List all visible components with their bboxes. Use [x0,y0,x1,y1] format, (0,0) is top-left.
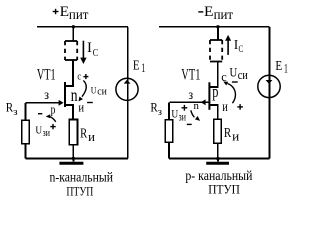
transistor VT1 drain lead right [209,62,217,88]
svg-text:пит: пит [69,7,89,22]
wire E1 branch right [269,27,271,159]
label Ic left [87,40,98,59]
transistor VT1 source lead right [209,105,217,119]
transistor VT1 gate arrow (points away, p-type) [201,99,206,105]
svg-text:1: 1 [284,60,288,75]
wire R3 to bottom rail [25,144,27,159]
current Ic arrow (up) right [225,35,231,55]
svg-text:R: R [80,126,87,141]
load (dashed box) right [210,40,222,62]
minus sign at gate left [38,113,42,115]
svg-text:и: и [88,130,95,144]
label Ic right [234,37,243,54]
svg-text:E: E [133,59,140,74]
resistor Ri body right [214,119,222,143]
svg-text:пит: пит [214,7,234,22]
resistor Ri label right [224,126,239,143]
ground symbol right [206,159,229,164]
resistor R3 (gate) label left [6,101,18,119]
svg-text:n: n [71,85,78,105]
resistor Ri label left [80,126,95,144]
resistor R3 body right [165,120,173,143]
label E1 right [275,59,288,75]
plus sign at source right [237,104,243,110]
svg-text:си: си [97,85,107,97]
svg-text:зи: зи [179,110,187,124]
Usi curved arrow right [223,82,235,104]
minus sign at source left [87,102,93,104]
load (dashed box) left [65,41,77,60]
current Ic arrow (down) left [80,41,86,64]
transistor VT1 source lead [65,105,73,120]
svg-text:U: U [91,86,97,96]
transistor VT1 (p-JFET): channel [208,82,210,110]
label E1 left [133,59,145,75]
label Usi right [230,64,248,82]
wire top rail left circuit [37,26,128,28]
transistor VT1 (n-JFET): channel [64,82,66,107]
transistor VT1 gate arrow (points to channel, n-type) [59,100,64,106]
source E1 circle right [258,75,280,97]
svg-text:з: з [13,107,17,118]
plus sign at Uzi left [50,124,55,129]
wire Ri to bottom rail right [217,143,219,158]
node junction dot bottom left [72,157,75,160]
svg-text:I: I [87,40,92,56]
wire Ri to bottom rail [72,145,74,159]
net -Epit label [198,3,233,22]
svg-text:и: и [222,99,228,114]
svg-text:U: U [35,125,42,137]
source E1 arrow (down) right [266,80,273,84]
label Uzi left [35,125,50,140]
net +Epit label [53,3,89,22]
wire stub from top rail to load [72,27,74,41]
svg-text:E: E [60,3,70,20]
resistor R3 body left [22,120,30,144]
svg-text:и: и [78,101,84,115]
svg-text:з: з [158,107,162,118]
svg-text:n-канальный: n-канальный [50,170,114,185]
transistor VT1 drain lead [65,60,73,86]
svg-text:ПТУП: ПТУП [66,183,93,198]
wire bottom rail right circuit [169,158,270,160]
svg-text:VT1: VT1 [37,67,56,84]
Uzi curved arrow right [191,110,200,121]
wire gate to R3 [25,103,27,120]
svg-text:R: R [224,126,232,141]
svg-text:C: C [93,48,99,59]
resistor Ri body left [69,119,77,144]
source E1 arrow (up) left [124,80,131,84]
wire E1 branch left [127,27,129,159]
svg-text:з: з [188,87,193,102]
Uzi curved arrow left [46,114,56,122]
Usi curved arrow left [79,81,87,102]
wire gate to R3 right [168,102,170,119]
svg-text:си: си [238,67,248,82]
transistor VT1 gate lead right [170,101,210,103]
wire top rail right circuit [159,26,270,28]
minus sign below Uzi right [187,123,192,125]
svg-text:VT1: VT1 [181,67,200,84]
transistor VT1 gate lead [26,102,61,104]
svg-text:p- канальный: p- канальный [185,168,252,183]
svg-text:E: E [275,59,282,74]
svg-text:p: p [51,101,56,116]
label Usi left [91,85,107,97]
minus sign under Usi right [232,81,238,83]
ground symbol left [59,158,83,163]
svg-text:ПТУП: ПТУП [208,182,240,197]
svg-text:и: и [232,130,239,144]
resistor R3 (gate) label right [150,101,162,119]
svg-text:E: E [204,3,214,20]
wire R3 to bottom rail right [168,142,170,158]
svg-text:U: U [230,64,238,79]
svg-text:p: p [212,82,218,101]
plus sign at gate right [182,105,188,111]
svg-text:n: n [194,100,200,112]
svg-text:1: 1 [141,60,145,75]
plus sign at drain left [83,74,88,79]
node junction dot top right [216,25,219,28]
svg-text:с: с [77,71,81,83]
wire stub from top rail to load right [217,27,219,40]
node junction dot top left [72,25,75,28]
node junction dot bottom right [216,157,219,160]
label Uzi right [171,107,186,123]
svg-text:зи: зи [43,127,50,139]
svg-text:C: C [239,44,244,54]
svg-text:з: з [44,87,49,102]
source E1 circle left [116,78,138,100]
wire bottom rail left circuit [26,157,128,159]
